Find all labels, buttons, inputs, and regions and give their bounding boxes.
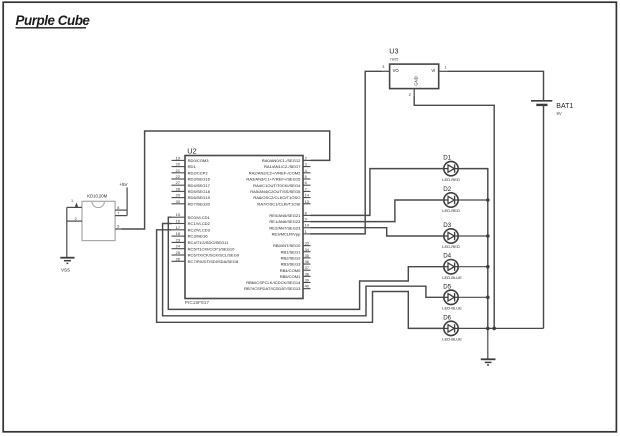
junction (486, 327, 490, 331)
svg-text:3: 3 (305, 162, 307, 167)
svg-text:RA6/OSC2/CLKO/T1OSO: RA6/OSC2/CLKO/T1OSO (253, 195, 300, 200)
ground symbol (LED bus) (481, 359, 496, 365)
svg-text:RB3/SEG3: RB3/SEG3 (281, 262, 302, 267)
wire D cathode to bus y=266.7 (458, 266, 488, 268)
svg-text:LED-BLUE: LED-BLUE (442, 337, 462, 342)
wire RE1 pin9 to D2 anode (311, 200, 444, 222)
U2 pin 34 RB1/SEG1 (281, 247, 311, 255)
battery BAT1 9V (531, 101, 573, 116)
svg-text:RB2/SEG2: RB2/SEG2 (281, 255, 302, 260)
svg-text:7: 7 (117, 211, 119, 215)
svg-text:19: 19 (176, 155, 180, 160)
svg-text:RD4/SEG17: RD4/SEG17 (188, 183, 211, 188)
U3 pin 3 VO stub (382, 65, 390, 71)
svg-text:RB4/COM0: RB4/COM0 (280, 268, 301, 273)
wire BAT1 negative down to ground rail (543, 105, 545, 329)
svg-text:RD3/SEG16: RD3/SEG16 (188, 177, 211, 182)
U2 pin 6 RA4/C1OUT/T0CKI/SEG4 (253, 180, 310, 188)
svg-text:15: 15 (176, 212, 180, 217)
svg-text:5: 5 (305, 174, 307, 179)
svg-text:RD5/SEG18: RD5/SEG18 (188, 189, 211, 194)
U2 pin 23 RC4/T1G/SDO/SEG11 (172, 237, 230, 245)
svg-text:PIC16F917: PIC16F917 (185, 300, 210, 306)
IC U2 PIC16F917 body (185, 156, 303, 299)
svg-text:RB1/SEG1: RB1/SEG1 (281, 249, 302, 254)
U2 pin 33 RB0/INT/SEG0 (273, 241, 311, 249)
wire U3 GND to ground rail (414, 96, 494, 328)
svg-text:RC2/VLCD3: RC2/VLCD3 (188, 227, 211, 232)
LED D1 LED-RED (442, 155, 460, 182)
U2 pin 30 RD7/SEG20 (172, 199, 211, 207)
wire RE2 pin10 to D3 anode (311, 228, 444, 236)
svg-text:16: 16 (176, 219, 180, 224)
svg-text:RC0/VLCD1: RC0/VLCD1 (188, 215, 211, 220)
svg-text:RC4/T1G/SDO/SEG11: RC4/T1G/SDO/SEG11 (188, 240, 230, 245)
svg-text:BAT1: BAT1 (556, 103, 573, 110)
U2 pin 7 RA5/AN4/C2OUT/SS/SEG5 (250, 186, 310, 194)
svg-text:1: 1 (444, 66, 446, 70)
U2 pin 1 RE3/MCLR/Vpp (272, 229, 311, 237)
svg-text:25: 25 (176, 250, 180, 255)
svg-text:27: 27 (176, 180, 180, 185)
svg-text:37: 37 (305, 265, 309, 270)
svg-text:RE0/AN5/SEG21: RE0/AN5/SEG21 (269, 213, 301, 218)
wire bus junction to ground (487, 328, 489, 359)
junction (492, 327, 496, 331)
regulator U3 7805 body (390, 64, 439, 89)
U2 pin 20 RD1 (172, 162, 197, 170)
svg-text:RA2/AN2/C2+/VREF-/COM2: RA2/AN2/C2+/VREF-/COM2 (249, 170, 301, 175)
svg-text:3: 3 (382, 65, 384, 69)
wire U3 VI to BAT1 positive (448, 71, 544, 101)
U2 pin 15 RC0/VLCD1 (172, 212, 211, 220)
svg-text:RA4/C1OUT/T0CKI/SEG4: RA4/C1OUT/T0CKI/SEG4 (253, 183, 301, 188)
svg-text:39: 39 (305, 278, 309, 283)
svg-text:LED-RED: LED-RED (442, 177, 460, 182)
svg-text:KD10.20M: KD10.20M (87, 194, 107, 199)
U2 pin 13 RA7/OSC1/CLKI/T1OSI (257, 199, 310, 207)
svg-text:6: 6 (305, 180, 307, 185)
svg-text:1: 1 (305, 229, 307, 234)
U2 pin 14 RA6/OSC2/CLKO/T1OSO (253, 193, 310, 201)
svg-text:RA5/AN4/C2OUT/SS/SEG5: RA5/AN4/C2OUT/SS/SEG5 (250, 189, 301, 194)
svg-text:35: 35 (305, 253, 309, 258)
svg-text:Purple Cube: Purple Cube (16, 13, 91, 28)
wire RC2 pin17 to D6 anode (157, 230, 444, 329)
svg-text:9V: 9V (557, 111, 562, 116)
svg-text:RE2/AN7/SEG23: RE2/AN7/SEG23 (269, 225, 301, 230)
svg-text:LED-RED: LED-RED (442, 208, 460, 213)
svg-text:+5V: +5V (119, 182, 127, 187)
U2 pin 40 RB7/ICSPDAT/ICDDAT/SEG13 (244, 284, 310, 292)
wire D cathode to bus y=236.0 (458, 235, 488, 237)
U2 pin 3 RA1/AN1/C2-/SEG7 (264, 162, 311, 170)
svg-text:U2: U2 (187, 146, 196, 155)
svg-text:LED-BLUE: LED-BLUE (442, 275, 462, 280)
svg-text:7: 7 (305, 186, 307, 191)
U2 pin 16 RC1/VLCD2 (172, 219, 211, 227)
U2 pin 4 RA2/AN2/C2+/VREF-/COM2 (249, 168, 311, 176)
svg-text:D2: D2 (443, 186, 451, 193)
svg-text:D4: D4 (443, 253, 451, 260)
svg-text:RD0/COM3: RD0/COM3 (188, 158, 210, 163)
U2 pin 39 RB6/ICSPCLK/ICDCK/SEG14 (246, 278, 310, 286)
svg-text:8: 8 (305, 210, 307, 215)
svg-text:RB0/INT/SEG0: RB0/INT/SEG0 (273, 243, 301, 248)
svg-text:29: 29 (176, 193, 180, 198)
wire RC1 pin16 to D5 anode (163, 224, 444, 316)
U2 pin 35 RB2/SEG2 (281, 253, 311, 261)
svg-text:23: 23 (176, 237, 180, 242)
svg-text:RC7/RX/DT/SDI/SDA/SEG8: RC7/RX/DT/SDI/SDA/SEG8 (188, 259, 239, 264)
junction (486, 296, 490, 300)
X1 pin 8 stub (115, 206, 127, 210)
LED D6 LED-BLUE (442, 314, 462, 341)
svg-text:2: 2 (75, 217, 77, 221)
svg-text:RB6/ICSPCLK/ICDCK/SEG14: RB6/ICSPCLK/ICDCK/SEG14 (246, 280, 301, 285)
LED D2 LED-RED (442, 186, 460, 213)
svg-text:2: 2 (305, 155, 307, 160)
U2 pin 24 RC5/T1CKI/CCP1/SEG10 (172, 244, 236, 252)
svg-text:D5: D5 (443, 283, 451, 290)
svg-text:22: 22 (176, 174, 180, 179)
svg-text:RA1/AN1/C2-/SEG7: RA1/AN1/C2-/SEG7 (264, 164, 301, 169)
svg-text:D1: D1 (443, 155, 451, 162)
U2 pin 27 RD4/SEG17 (172, 180, 211, 188)
ground VSS symbol (60, 258, 74, 273)
U2 pin 37 RB4/COM0 (280, 265, 311, 273)
oscillator X1 KD10.20M body (82, 201, 115, 240)
svg-text:17: 17 (176, 225, 180, 230)
LED D3 LED-RED (442, 222, 460, 249)
U2 pin 29 RD6/SEG19 (172, 193, 211, 201)
U3 pin 2 GND stub (409, 89, 414, 98)
wire LED cathode bus (458, 169, 488, 329)
svg-text:LED-RED: LED-RED (442, 244, 460, 249)
svg-text:7805: 7805 (390, 56, 400, 61)
svg-text:RE3/MCLR/Vpp: RE3/MCLR/Vpp (272, 231, 302, 236)
svg-text:RD7/SEG20: RD7/SEG20 (188, 201, 211, 206)
junction (486, 198, 490, 202)
wire RA0 pin2 to X1 pin5 (clock) (122, 131, 330, 229)
LED D5 LED-BLUE (442, 283, 462, 310)
svg-text:VSS: VSS (61, 268, 70, 273)
svg-text:VO: VO (393, 68, 400, 73)
svg-text:GND: GND (413, 76, 418, 85)
wire ground rail D6 row (458, 327, 543, 329)
svg-text:D6: D6 (443, 314, 451, 321)
svg-text:RD6/SEG19: RD6/SEG19 (188, 195, 211, 200)
LED D4 LED-BLUE (442, 253, 462, 280)
U2 pin 26 RC7/RX/DT/SDI/SDA/SEG8 (172, 256, 239, 264)
U2 pin 25 RC6/TX/CK/SCK/SCL/SEG9 (172, 250, 240, 258)
svg-text:RA0/AN0/C1-/SEG12: RA0/AN0/C1-/SEG12 (262, 158, 301, 163)
svg-text:2: 2 (409, 93, 411, 97)
svg-text:38: 38 (305, 271, 309, 276)
wire RC0 pin15 to D4 anode (168, 217, 444, 309)
junction (486, 234, 490, 238)
wire D cathode to bus y=200.0 (458, 199, 488, 201)
svg-text:1: 1 (71, 199, 73, 203)
svg-text:21: 21 (176, 168, 180, 173)
junction (486, 265, 490, 269)
U2 pin 36 RB3/SEG3 (281, 259, 311, 267)
svg-text:13: 13 (305, 199, 309, 204)
svg-text:RB5/COM1: RB5/COM1 (280, 274, 301, 279)
svg-text:RD1: RD1 (188, 164, 197, 169)
svg-text:26: 26 (176, 256, 180, 261)
X1 pin 1 stub with pin-1 arrow (67, 199, 82, 207)
svg-text:18: 18 (176, 231, 180, 236)
U2 pin 17 RC2/VLCD3 (172, 225, 211, 233)
X1 pin 5 output stub (115, 225, 122, 229)
svg-text:RD2/CCP2: RD2/CCP2 (188, 170, 209, 175)
wire +5V: U3 VO to RE3/MCLR pin1 (311, 71, 382, 234)
wire D cathode to bus y=297.3 (458, 296, 488, 298)
U2 pin 2 RA0/AN0/C1-/SEG12 (262, 155, 311, 163)
svg-text:9: 9 (305, 217, 307, 222)
U2 pin 8 RE0/AN5/SEG21 (269, 210, 310, 218)
svg-text:RC1/VLCD2: RC1/VLCD2 (188, 221, 211, 226)
svg-text:RB7/ICSPDAT/ICDDAT/SEG13: RB7/ICSPDAT/ICDDAT/SEG13 (244, 286, 301, 291)
power +5V symbol at X1 (119, 182, 127, 216)
svg-text:33: 33 (305, 241, 309, 246)
svg-text:8: 8 (117, 206, 119, 210)
U2 pin 28 RD5/SEG18 (172, 186, 211, 194)
svg-text:RA7/OSC1/CLKI/T1OSI: RA7/OSC1/CLKI/T1OSI (257, 201, 300, 206)
wire RE0 pin8 to D1 anode (311, 169, 444, 216)
U2 pin 5 RA3/AN3/C1+/VREF+/SEG15 (246, 174, 310, 182)
svg-text:5: 5 (117, 225, 119, 229)
X1 pin 7 stub (115, 211, 127, 215)
X1 pin 2 stub (67, 217, 82, 221)
U2 pin 18 RC3/SEG6 (172, 231, 209, 239)
U2 pin 19 RD0/COM3 (172, 155, 210, 163)
wire X1 pins to VSS ground (66, 207, 68, 257)
svg-text:28: 28 (176, 186, 180, 191)
svg-text:RC5/T1CKI/CCP1/SEG10: RC5/T1CKI/CCP1/SEG10 (188, 246, 236, 251)
svg-text:RE1/AN6/SEG22: RE1/AN6/SEG22 (269, 219, 301, 224)
svg-text:VI: VI (431, 68, 435, 73)
U2 pin 38 RB5/COM1 (280, 271, 311, 279)
svg-text:36: 36 (305, 259, 309, 264)
svg-text:D3: D3 (443, 222, 451, 229)
U2 pin 22 RD3/SEG16 (172, 174, 211, 182)
U2 pin 21 RD2/CCP2 (172, 168, 209, 176)
svg-text:RC6/TX/CK/SCK/SCL/SEG9: RC6/TX/CK/SCK/SCL/SEG9 (188, 253, 240, 258)
svg-text:RC3/SEG6: RC3/SEG6 (188, 234, 209, 239)
svg-text:U3: U3 (389, 47, 398, 56)
U3 pin 1 VI stub (439, 66, 448, 72)
U2 pin 10 RE2/AN7/SEG23 (269, 223, 310, 231)
U2 pin 9 RE1/AN6/SEG22 (269, 217, 310, 225)
svg-text:LED-BLUE: LED-BLUE (442, 306, 462, 311)
svg-text:RA3/AN3/C1+/VREF+/SEG15: RA3/AN3/C1+/VREF+/SEG15 (246, 177, 301, 182)
